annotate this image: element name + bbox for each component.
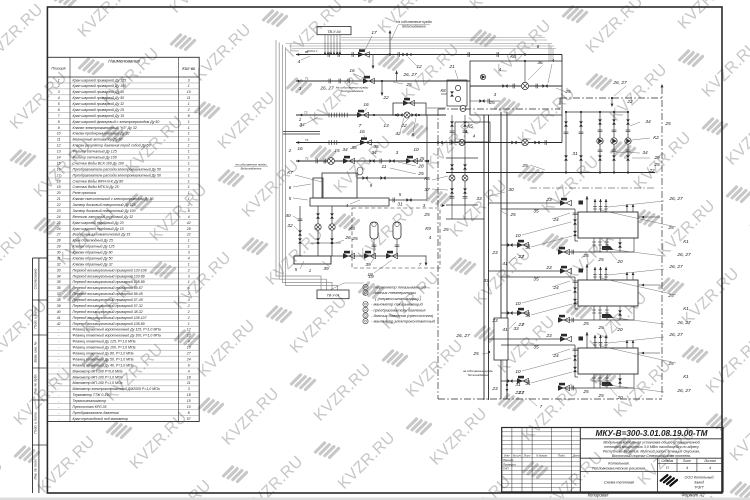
svg-text:1: 1 — [58, 78, 60, 82]
svg-text:-: - — [58, 405, 60, 409]
svg-text:19: 19 — [368, 274, 374, 280]
svg-text:-: - — [58, 328, 60, 332]
svg-text:Переход восьмиугольный приварн: Переход восьмиугольный приварной 89-57 — [73, 286, 144, 290]
svg-text:7: 7 — [522, 390, 525, 395]
pipe T2 heating return (y=115) — [296, 102, 446, 129]
svg-text:KVZR.RU: KVZR.RU — [723, 105, 750, 169]
svg-text:6: 6 — [188, 209, 190, 213]
svg-text:Клапан предохранительный Ду 32: Клапан предохранительный Ду 32 — [73, 132, 130, 136]
svg-text:KVZR.RU: KVZR.RU — [607, 61, 671, 125]
svg-text:KVZR.RU: KVZR.RU — [191, 21, 255, 85]
svg-text:5: 5 — [399, 192, 402, 197]
svg-text:23: 23 — [56, 209, 61, 213]
svg-text:10: 10 — [187, 346, 191, 350]
svg-text:4: 4 — [188, 369, 190, 373]
svg-text:Кран шаровой приварной Ду 125: Кран шаровой приварной Ду 125 — [73, 78, 127, 82]
svg-text:Позиция: Позиция — [51, 67, 65, 71]
svg-text:3: 3 — [188, 167, 190, 171]
svg-text:22: 22 — [648, 168, 655, 174]
svg-text:31: 31 — [397, 202, 403, 208]
svg-text:16: 16 — [57, 167, 61, 171]
svg-text:26, 27: 26, 27 — [455, 333, 470, 339]
svg-text:KVZR.RU: KVZR.RU — [151, 477, 215, 500]
svg-text:25: 25 — [419, 156, 425, 161]
svg-text:1: 1 — [188, 120, 190, 124]
svg-text:34: 34 — [645, 119, 651, 125]
svg-text:KVZR.RU: KVZR.RU — [375, 0, 439, 37]
svg-text:Кран шаровой турбовый Ду 15: Кран шаровой турбовый Ду 15 — [73, 227, 124, 231]
svg-text:тепловой мощностью 3,0 МВт: тепловой мощностью 3,0 МВт находящейся п… — [604, 445, 699, 449]
svg-text:4: 4 — [709, 466, 711, 470]
control cable bundle — [276, 38, 556, 291]
svg-text:16: 16 — [363, 102, 369, 108]
svg-text:16: 16 — [349, 68, 355, 74]
svg-text:Инв. № подл.: Инв. № подл. — [34, 458, 38, 479]
svg-text:6: 6 — [188, 363, 190, 367]
svg-text:Водоснабжение: Водоснабжение — [402, 25, 426, 29]
svg-text:23: 23 — [491, 318, 498, 324]
svg-text:31: 31 — [525, 313, 531, 319]
svg-text:( (термосигнализации) ): ( (термосигнализации) ) — [375, 296, 422, 301]
boiler unit 2 (К1) — [489, 264, 691, 333]
svg-text:Клапан обратный Ду 50: Клапан обратный Ду 50 — [73, 256, 113, 260]
svg-text:Кол-во: Кол-во — [182, 66, 196, 71]
svg-text:Вентиль латунный турбовый Ду 3: Вентиль латунный турбовый Ду 32 — [73, 215, 134, 219]
svg-text:25: 25 — [442, 227, 449, 233]
svg-text:3: 3 — [188, 251, 190, 255]
svg-text:28: 28 — [417, 164, 424, 170]
svg-text:20: 20 — [56, 191, 61, 195]
svg-text:-: - — [58, 393, 60, 397]
svg-text:4: 4 — [188, 215, 190, 219]
svg-text:К1: К1 — [683, 239, 689, 245]
svg-text:13: 13 — [57, 150, 61, 154]
svg-text:1: 1 — [188, 173, 190, 177]
svg-text:9: 9 — [58, 126, 60, 130]
controller box ТВ-У-04 (top) — [317, 27, 351, 55]
svg-text:Клапан обратный Ду 32: Клапан обратный Ду 32 — [73, 262, 113, 266]
svg-text:Фланец ответный воротниковый: Фланец ответный воротниковый Ду 100, Р=1… — [73, 334, 161, 338]
svg-text:5: 5 — [58, 102, 60, 106]
svg-text:25: 25 — [351, 236, 358, 242]
svg-text:Фланец ответный Ду 40, Р=1,0: Фланец ответный Ду 40, Р=1,0 МПа — [73, 363, 134, 367]
svg-text:34: 34 — [642, 150, 648, 156]
svg-text:35: 35 — [373, 144, 379, 150]
svg-text:1: 1 — [188, 132, 190, 136]
svg-text:10: 10 — [515, 233, 521, 239]
svg-text:Фланец ответный воротниковый: Фланец ответный воротниковый Ду 125, Р=1… — [73, 328, 161, 332]
svg-text:1: 1 — [188, 155, 190, 159]
svg-text:-: - — [58, 417, 60, 421]
svg-text:Схема тепловая: Схема тепловая — [604, 481, 634, 485]
svg-text:Прессостат КРЛ-35: Прессостат КРЛ-35 — [73, 405, 107, 409]
svg-text:18: 18 — [187, 393, 191, 397]
svg-text:1: 1 — [188, 84, 190, 88]
svg-text:К5: К5 — [467, 124, 473, 130]
svg-text:N докум.: N докум. — [536, 454, 548, 458]
svg-text:22: 22 — [56, 203, 61, 207]
svg-text:39: 39 — [323, 266, 329, 272]
svg-text:Манометр МП-100 Р=0,6 МПа: Манометр МП-100 Р=0,6 МПа — [73, 369, 123, 373]
svg-text:22: 22 — [626, 99, 633, 105]
svg-text:20: 20 — [616, 327, 623, 333]
svg-text:Кран шаровой приварной Ду 32: Кран шаровой приварной Ду 32 — [73, 102, 125, 106]
svg-text:7: 7 — [359, 123, 362, 129]
svg-text:Изм: Изм — [504, 454, 509, 458]
svg-text:Счетчик Воды WPH-N-K Ду 80: Счетчик Воды WPH-N-K Ду 80 — [73, 179, 124, 183]
svg-text:Переход восьмиугольный приварн: Переход восьмиугольный приварной 133-89 — [73, 274, 145, 278]
svg-text:2: 2 — [187, 310, 190, 314]
svg-text:KVZR.RU: KVZR.RU — [519, 381, 583, 445]
svg-text:25: 25 — [423, 212, 430, 218]
svg-text:Фланец ответный Ду 125, Р=1,: Фланец ответный Ду 125, Р=1,0 МПа — [73, 340, 136, 344]
svg-text:Клапан регулятор давления пере: Клапан регулятор давления перед собой Ду… — [73, 144, 151, 148]
svg-text:KVZR.RU: KVZR.RU — [699, 37, 750, 101]
svg-text:32: 32 — [287, 223, 293, 229]
svg-text:- манометр показывающий: - манометр показывающий — [371, 302, 423, 307]
svg-text:Лист: Лист — [523, 454, 532, 458]
svg-text:KVZR.RU: KVZR.RU — [171, 249, 235, 313]
module К5 (pumps) — [423, 106, 490, 234]
svg-text:25: 25 — [564, 89, 571, 95]
svg-text:23: 23 — [545, 265, 552, 271]
svg-text:KVZR.RU: KVZR.RU — [35, 433, 99, 497]
svg-text:Затвор дисковый поворотный Ду: Затвор дисковый поворотный Ду 100 — [73, 209, 136, 213]
svg-text:Лист: Лист — [682, 459, 692, 463]
svg-text:26, 27: 26, 27 — [668, 196, 683, 202]
boundary dash-dot box — [438, 80, 663, 399]
svg-text:42: 42 — [187, 221, 191, 225]
svg-text:4: 4 — [188, 256, 190, 260]
svg-text:ТВ-У-04: ТВ-У-04 — [327, 293, 340, 297]
svg-text:Кран шаровой приварной Ду 100: Кран шаровой приварной Ду 100 — [73, 84, 127, 88]
svg-text:1: 1 — [188, 126, 190, 130]
pipe T1 boiler circuit (y=142.5) — [283, 115, 562, 153]
svg-text:Кол.уч: Кол.уч — [513, 454, 521, 458]
svg-text:40: 40 — [57, 310, 61, 314]
svg-text:Республика Бурятия, Муйский р: Республика Бурятия, Муйский район, станц… — [603, 449, 700, 453]
svg-text:Затвор дисковый поворотный Ду: Затвор дисковый поворотный Ду 125 — [73, 203, 136, 207]
svg-text:Кран шаровой приварной Ду 50: Кран шаровой приварной Ду 50 — [73, 96, 125, 100]
svg-text:4: 4 — [188, 298, 190, 302]
svg-text:Переход восьмиугольный приварн: Переход восьмиугольный приварной 108-107 — [73, 316, 148, 320]
svg-text:KVZR.RU: KVZR.RU — [583, 0, 647, 57]
svg-text:25: 25 — [597, 393, 604, 399]
svg-text:KVZR.RU: KVZR.RU — [679, 265, 743, 329]
svg-text:3: 3 — [188, 78, 190, 82]
pipe T2 boiler circuit (y=161) — [234, 144, 429, 177]
svg-text:2: 2 — [187, 304, 190, 308]
svg-text:Согласовано: Согласовано — [34, 269, 38, 290]
svg-text:21: 21 — [448, 64, 455, 70]
svg-text:16: 16 — [359, 129, 365, 135]
svg-text:Формат А2: Формат А2 — [682, 493, 706, 498]
svg-text:11: 11 — [57, 138, 61, 142]
svg-text:1: 1 — [188, 191, 190, 195]
svg-text:28: 28 — [56, 239, 61, 243]
svg-text:KVZR.RU: KVZR.RU — [307, 65, 371, 129]
svg-text:- датчик температуры: - датчик температуры — [371, 290, 416, 295]
svg-text:Переход восьмиугольный приварн: Переход восьмиугольный приварной 57-45 — [73, 298, 143, 302]
svg-text:25: 25 — [582, 253, 589, 259]
svg-text:41: 41 — [502, 327, 508, 333]
specification table — [47, 57, 199, 421]
svg-text:Клапан смесительный с электроп: Клапан смесительный с электроприводом Ду… — [73, 197, 154, 201]
svg-text:4: 4 — [429, 235, 432, 240]
svg-text:23: 23 — [491, 250, 498, 256]
svg-text:35: 35 — [57, 280, 61, 284]
svg-text:57: 57 — [187, 417, 192, 421]
svg-text:30: 30 — [508, 187, 514, 193]
svg-text:KVZR.RU: KVZR.RU — [0, 229, 27, 293]
svg-text:13: 13 — [383, 123, 389, 129]
svg-text:41: 41 — [502, 261, 508, 267]
svg-text:Взам. инв. №: Взам. инв. № — [34, 341, 38, 362]
svg-text:10: 10 — [57, 132, 61, 136]
svg-text:KVZR.RU: KVZR.RU — [167, 0, 231, 17]
svg-text:33: 33 — [57, 268, 61, 272]
svg-text:33: 33 — [483, 278, 489, 284]
svg-text:21: 21 — [56, 197, 61, 201]
svg-text:ООО Котельный: ООО Котельный — [685, 476, 714, 480]
svg-text:1: 1 — [188, 138, 190, 142]
svg-text:22: 22 — [186, 233, 191, 237]
svg-text:KVZR.RU: KVZR.RU — [655, 197, 719, 261]
svg-text:1: 1 — [188, 185, 190, 189]
svg-text:23: 23 — [545, 197, 552, 203]
svg-text:10: 10 — [515, 301, 521, 307]
svg-text:Ø108х4,0: Ø108х4,0 — [306, 50, 318, 53]
svg-text:Т1: Т1 — [305, 77, 309, 81]
svg-text:1: 1 — [188, 197, 190, 201]
svg-text:1: 1 — [188, 280, 190, 284]
svg-text:39: 39 — [365, 262, 371, 268]
svg-text:3: 3 — [494, 92, 497, 97]
svg-text:на собственные нужды: на собственные нужды — [463, 369, 493, 373]
svg-text:KVZR.RU: KVZR.RU — [451, 473, 515, 500]
svg-text:2: 2 — [187, 292, 190, 296]
svg-text:Манометр электроконтактный ДМ: Манометр электроконтактный ДМ2005 Р=1,0 … — [73, 387, 160, 391]
svg-text:Фланец ответный Ду 80, Р=1,0: Фланец ответный Ду 80, Р=1,0 МПа — [73, 352, 134, 356]
boiler circulation pumps К2 — [446, 111, 671, 174]
svg-text:18: 18 — [57, 179, 61, 183]
pipe T1 heating supply (y=81) — [296, 68, 470, 101]
svg-text:1: 1 — [188, 161, 190, 165]
mixing unit box K4 — [393, 98, 446, 199]
svg-text:Преобразователь расхода электр: Преобразователь расхода электромагнитный… — [73, 173, 161, 177]
svg-text:2: 2 — [187, 203, 190, 207]
svg-text:Магнитный активатор Ду 80: Магнитный активатор Ду 80 — [73, 138, 123, 142]
svg-text:25: 25 — [582, 321, 589, 327]
svg-text:1: 1 — [188, 150, 190, 154]
svg-text:12: 12 — [187, 334, 191, 338]
svg-text:4: 4 — [346, 203, 349, 208]
svg-text:29: 29 — [653, 155, 660, 161]
svg-text:33: 33 — [476, 196, 482, 202]
svg-text:Воздушник автоматический Ду 15: Воздушник автоматический Ду 15 — [73, 233, 131, 237]
svg-text:22: 22 — [400, 123, 407, 129]
svg-text:6: 6 — [188, 286, 190, 290]
svg-text:На собственные нужды: На собственные нужды — [396, 20, 433, 24]
svg-text:KVZR.RU: KVZR.RU — [539, 153, 603, 217]
svg-text:25: 25 — [472, 351, 479, 357]
svg-text:Кран шаровой приварной Ду 15: Кран шаровой приварной Ду 15 — [73, 114, 125, 118]
svg-text:1: 1 — [188, 245, 190, 249]
svg-text:4: 4 — [188, 340, 190, 344]
svg-text:Переход восьмиугольный приварн: Переход восьмиугольный приварной 89-45 — [73, 292, 143, 296]
svg-text:15: 15 — [334, 148, 340, 154]
svg-text:KVZR.RU: KVZR.RU — [147, 181, 211, 245]
svg-text:10: 10 — [413, 147, 419, 153]
svg-text:4: 4 — [686, 466, 688, 470]
svg-text:23: 23 — [491, 386, 498, 392]
svg-text:28: 28 — [186, 227, 191, 231]
svg-text:1: 1 — [188, 102, 190, 106]
svg-text:5: 5 — [295, 267, 298, 272]
svg-text:4: 4 — [473, 134, 476, 139]
svg-text:30: 30 — [57, 251, 61, 255]
svg-text:-: - — [58, 346, 60, 350]
svg-text:7: 7 — [419, 262, 422, 267]
svg-text:12: 12 — [416, 64, 422, 70]
svg-text:1: 1 — [188, 322, 190, 326]
svg-text:11: 11 — [382, 164, 387, 170]
svg-text:2: 2 — [187, 268, 190, 272]
svg-text:41: 41 — [57, 316, 61, 320]
svg-text:35: 35 — [351, 145, 357, 151]
svg-text:18: 18 — [187, 375, 191, 379]
svg-text:К6: К6 — [510, 54, 516, 60]
svg-text:15: 15 — [57, 161, 61, 165]
svg-text:25: 25 — [417, 171, 424, 177]
controller box ТВ-У-04 (bottom) — [317, 290, 349, 299]
svg-text:Фильтр сетчатый Ду 100: Фильтр сетчатый Ду 100 — [73, 155, 117, 159]
svg-text:К8: К8 — [440, 88, 446, 93]
svg-text:К5: К5 — [424, 176, 430, 182]
svg-text:25: 25 — [582, 389, 589, 395]
svg-text:KVZR.RU: KVZR.RU — [311, 361, 375, 425]
svg-text:26, 27: 26, 27 — [676, 320, 691, 326]
svg-text:8: 8 — [58, 120, 60, 124]
svg-text:- термометр показывающий: - термометр показывающий — [371, 285, 427, 290]
svg-text:Кран сбросводный Ду 25: Кран сбросводный Ду 25 — [73, 239, 113, 243]
svg-text:Термометр ТТЖ 0-150: Термометр ТТЖ 0-150 — [73, 393, 111, 397]
svg-text:Теплоснабжение: Теплоснабжение — [467, 373, 489, 377]
svg-text:6: 6 — [289, 185, 292, 190]
svg-text:10: 10 — [515, 369, 521, 375]
svg-text:KVZR.RU: KVZR.RU — [675, 0, 739, 33]
svg-text:Завод: Завод — [694, 481, 704, 485]
svg-text:Переход восьмиугольный приварн: Переход восьмиугольный приварной 108-89 — [73, 280, 145, 284]
expansion tanks К3 К9 — [331, 208, 440, 268]
svg-text:Переход восьмиугольный приварн: Переход восьмиугольный приварной 57-32 — [73, 304, 143, 308]
svg-text:- преобразователь давления: - преобразователь давления — [371, 307, 426, 312]
svg-text:-: - — [58, 399, 60, 403]
svg-text:42: 42 — [57, 322, 61, 326]
svg-text:К3: К3 — [349, 226, 355, 232]
svg-text:KVZR.RU: KVZR.RU — [127, 409, 191, 473]
svg-text:-: - — [58, 340, 60, 344]
svg-text:1: 1 — [188, 262, 190, 266]
svg-text:4: 4 — [58, 96, 60, 100]
svg-text:34: 34 — [371, 150, 377, 156]
svg-text:3: 3 — [299, 86, 302, 92]
svg-text:26, 27: 26, 27 — [319, 86, 334, 92]
svg-text:1: 1 — [188, 239, 190, 243]
svg-text:25: 25 — [597, 325, 604, 331]
svg-text:- манометр электроконтактный: - манометр электроконтактный — [371, 319, 436, 324]
svg-text:26: 26 — [344, 235, 351, 241]
svg-text:KVZR.RU: KVZR.RU — [287, 293, 351, 357]
svg-text:К7: К7 — [287, 170, 293, 176]
svg-text:32: 32 — [57, 262, 61, 266]
svg-text:Манометр МП-160 Р=1,0 МПа: Манометр МП-160 Р=1,0 МПа — [73, 381, 123, 385]
svg-text:К2: К2 — [653, 135, 659, 141]
pipe B1 (water supply main, y=54.5) — [296, 20, 562, 70]
svg-text:26, 27: 26, 27 — [668, 332, 683, 338]
svg-text:20: 20 — [616, 395, 623, 401]
svg-text:-: - — [58, 352, 60, 356]
svg-text:19: 19 — [57, 185, 61, 189]
svg-text:24: 24 — [186, 357, 191, 361]
svg-text:31: 31 — [572, 151, 578, 157]
svg-text:12: 12 — [187, 328, 191, 332]
svg-text:-: - — [58, 334, 60, 338]
svg-text:Копировал: Копировал — [588, 493, 609, 498]
svg-text:40: 40 — [285, 213, 291, 219]
svg-text:Кран трехходовой под манометр: Кран трехходовой под манометр — [73, 417, 129, 421]
svg-text:3: 3 — [396, 150, 399, 155]
svg-text:Манометр МП-100 Р=1,0 МПа: Манометр МП-100 Р=1,0 МПа — [73, 375, 123, 379]
svg-text:38: 38 — [57, 298, 61, 302]
svg-text:25: 25 — [509, 212, 516, 218]
svg-text:Восточный портал Северомуйског: Восточный портал Северомуйского тоннеля. — [612, 454, 691, 458]
svg-text:25: 25 — [597, 257, 604, 263]
svg-text:2: 2 — [187, 108, 190, 112]
svg-text:29: 29 — [56, 245, 61, 249]
title block — [502, 428, 723, 492]
svg-text:Кран шаровой турбовый Ду 20: Кран шаровой турбовый Ду 20 — [73, 221, 124, 225]
svg-text:Т2: Т2 — [305, 157, 309, 161]
svg-text:37: 37 — [424, 187, 430, 193]
svg-text:Клапан обратный Ду 125: Клапан обратный Ду 125 — [73, 245, 115, 249]
svg-text:10: 10 — [187, 90, 191, 94]
svg-text:27: 27 — [186, 352, 192, 356]
svg-text:KVZR.RU: KVZR.RU — [703, 333, 750, 397]
svg-text:Подп. и дата: Подп. и дата — [34, 412, 38, 433]
svg-text:"РЭП": "РЭП" — [694, 486, 705, 490]
svg-text:Переход восьмиугольный приварн: Переход восьмиугольный приварной 38-32 — [73, 310, 143, 314]
svg-text:Клапан обратный Ду 80: Клапан обратный Ду 80 — [73, 251, 113, 255]
svg-text:Преобразователь расхода электр: Преобразователь расхода электромагнитный… — [73, 167, 161, 171]
svg-text:Тепломеханические решения.: Тепломеханические решения. — [592, 466, 646, 471]
svg-text:7: 7 — [522, 322, 525, 327]
svg-text:8: 8 — [188, 114, 190, 118]
svg-text:23: 23 — [545, 333, 552, 339]
svg-text:15: 15 — [187, 399, 191, 403]
feed pumps and collector — [285, 206, 392, 278]
svg-text:Стадия: Стадия — [661, 459, 673, 463]
svg-text:3: 3 — [188, 274, 190, 278]
svg-text:26, 27: 26, 27 — [676, 252, 691, 258]
svg-text:5: 5 — [289, 196, 292, 201]
svg-text:KVZR.RU: KVZR.RU — [219, 385, 283, 449]
svg-text:- датчик давления (прессостат: - датчик давления (прессостат) — [371, 313, 434, 318]
svg-text:KVZR.RU: KVZR.RU — [215, 89, 279, 153]
svg-text:25: 25 — [56, 221, 61, 225]
svg-text:36: 36 — [57, 286, 61, 290]
svg-text:KVZR.RU: KVZR.RU — [427, 405, 491, 469]
